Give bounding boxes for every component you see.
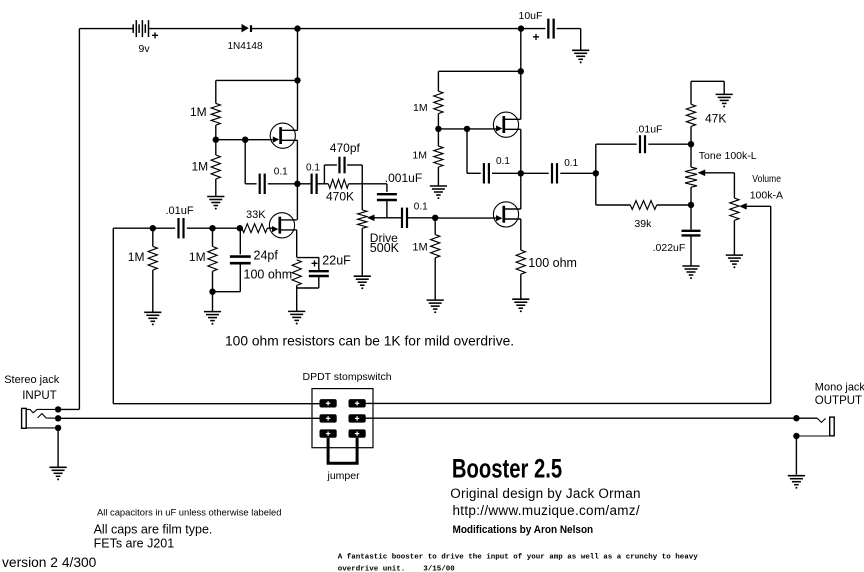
- svg-text:1M: 1M: [189, 250, 206, 264]
- svg-text:1M: 1M: [192, 160, 209, 174]
- svg-text:INPUT: INPUT: [22, 390, 57, 402]
- svg-text:Tone 100k-L: Tone 100k-L: [699, 150, 757, 162]
- svg-text:1M: 1M: [128, 250, 145, 264]
- svg-text:Booster 2.5: Booster 2.5: [452, 454, 562, 485]
- svg-text:Volume: Volume: [752, 173, 781, 185]
- svg-text:39k: 39k: [634, 218, 652, 230]
- svg-text:9v: 9v: [139, 43, 151, 55]
- svg-text:+: +: [311, 257, 318, 271]
- svg-text:DPDT stompswitch: DPDT stompswitch: [303, 371, 392, 383]
- svg-text:.022uF: .022uF: [653, 242, 686, 254]
- svg-text:470K: 470K: [326, 190, 354, 204]
- svg-text:1M: 1M: [412, 241, 427, 253]
- svg-text:.001uF: .001uF: [385, 171, 422, 185]
- svg-text:All caps are film type.: All caps are film type.: [94, 523, 213, 537]
- svg-text:Original design by Jack Orman: Original design by Jack Orman: [450, 486, 640, 501]
- svg-text:470pf: 470pf: [330, 141, 361, 155]
- svg-text:33K: 33K: [246, 209, 266, 221]
- svg-text:0.1: 0.1: [306, 163, 320, 174]
- svg-text:0.1: 0.1: [414, 201, 428, 212]
- svg-text:version 2 4/300: version 2 4/300: [2, 555, 97, 570]
- svg-text:100k-A: 100k-A: [750, 189, 783, 201]
- svg-text:100 ohm resistors can be 1K fo: 100 ohm resistors can be 1K for mild ove…: [225, 334, 514, 349]
- svg-text:0.1: 0.1: [274, 166, 288, 177]
- svg-text:.01uF: .01uF: [636, 124, 663, 136]
- svg-text:1M: 1M: [412, 150, 427, 162]
- svg-text:A fantastic booster to drive t: A fantastic booster to drive the input o…: [338, 554, 699, 562]
- svg-text:0.1: 0.1: [496, 156, 510, 167]
- svg-text:100 ohm: 100 ohm: [244, 268, 293, 282]
- svg-text:0.1: 0.1: [564, 158, 578, 169]
- svg-text:Stereo jack: Stereo jack: [4, 374, 60, 386]
- svg-text:24pf: 24pf: [254, 249, 279, 263]
- svg-text:Modifications by Aron Nelson: Modifications by Aron Nelson: [453, 524, 594, 537]
- svg-text:overdrive unit. 3/15/00: overdrive unit. 3/15/00: [338, 566, 456, 572]
- svg-text:500K: 500K: [370, 241, 400, 255]
- svg-text:100 ohm: 100 ohm: [528, 256, 577, 270]
- svg-text:22uF: 22uF: [322, 254, 351, 268]
- svg-text:10uF: 10uF: [519, 10, 543, 22]
- svg-text:1M: 1M: [190, 105, 207, 119]
- svg-text:+: +: [533, 30, 540, 44]
- svg-text:47K: 47K: [705, 112, 726, 126]
- svg-text:jumper: jumper: [327, 470, 361, 482]
- svg-text:Mono jack: Mono jack: [815, 382, 864, 394]
- svg-text:FETs are J201: FETs are J201: [94, 537, 175, 551]
- svg-text:All capacitors in uF unless ot: All capacitors in uF unless otherwise la…: [97, 507, 281, 518]
- svg-text:1M: 1M: [413, 102, 428, 114]
- svg-text:http://www.muzique.com/amz/: http://www.muzique.com/amz/: [453, 503, 640, 518]
- svg-text:.01uF: .01uF: [166, 205, 194, 217]
- svg-text:+: +: [152, 29, 159, 43]
- svg-text:OUTPUT: OUTPUT: [815, 395, 862, 407]
- svg-text:1N4148: 1N4148: [228, 41, 263, 52]
